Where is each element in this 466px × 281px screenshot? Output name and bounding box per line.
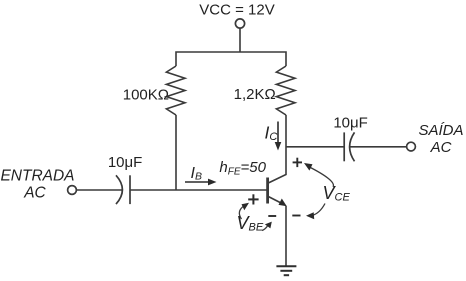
svg-text:IC: IC (265, 122, 278, 143)
terminal VCC (235, 19, 244, 28)
wire input left (77, 189, 123, 191)
transistor Q1 (268, 178, 287, 207)
terminal input (68, 186, 77, 195)
svg-text:hFE=50: hFE=50 (219, 159, 266, 177)
wire output branch (286, 146, 344, 148)
wire output right (350, 146, 407, 148)
svg-text:10μF: 10μF (333, 115, 368, 132)
svg-text:VCC = 12V: VCC = 12V (199, 1, 274, 18)
resistor R1 100KΩ (166, 66, 185, 115)
svg-text:SAÍDA: SAÍDA (418, 122, 463, 139)
wire top rail (176, 52, 286, 66)
wire collector lead (268, 115, 286, 183)
svg-text:VBE: VBE (237, 213, 264, 234)
svg-text:AC: AC (430, 139, 452, 156)
plus VBE (248, 194, 258, 204)
ground (276, 266, 296, 275)
arc VCE top (304, 163, 333, 187)
capacitor C2 10uF (344, 132, 354, 161)
capacitor C1 10uF (116, 175, 130, 204)
terminal output (407, 142, 416, 151)
svg-text:AC: AC (23, 185, 46, 202)
arc VCE bottom (306, 204, 325, 220)
arrow IC (275, 122, 282, 151)
arrow IB (185, 179, 217, 186)
wire emitter down (285, 206, 287, 266)
svg-text:ENTRADA: ENTRADA (0, 168, 74, 185)
minus VCE (292, 215, 300, 217)
svg-text:100KΩ: 100KΩ (123, 86, 169, 103)
wire VCC stem (239, 29, 241, 53)
svg-text:IB: IB (191, 165, 202, 183)
svg-text:VCE: VCE (323, 183, 351, 204)
wire R1 bottom lead (175, 115, 177, 190)
arc VBE (239, 203, 249, 219)
plus VCE (293, 158, 302, 167)
wire base (130, 189, 267, 191)
arrow to VBE minus (262, 222, 272, 231)
svg-text:10μF: 10μF (108, 154, 143, 171)
resistor R2 1,2KΩ (276, 66, 295, 115)
svg-text:1,2KΩ: 1,2KΩ (234, 86, 276, 103)
minus VBE (268, 215, 276, 217)
